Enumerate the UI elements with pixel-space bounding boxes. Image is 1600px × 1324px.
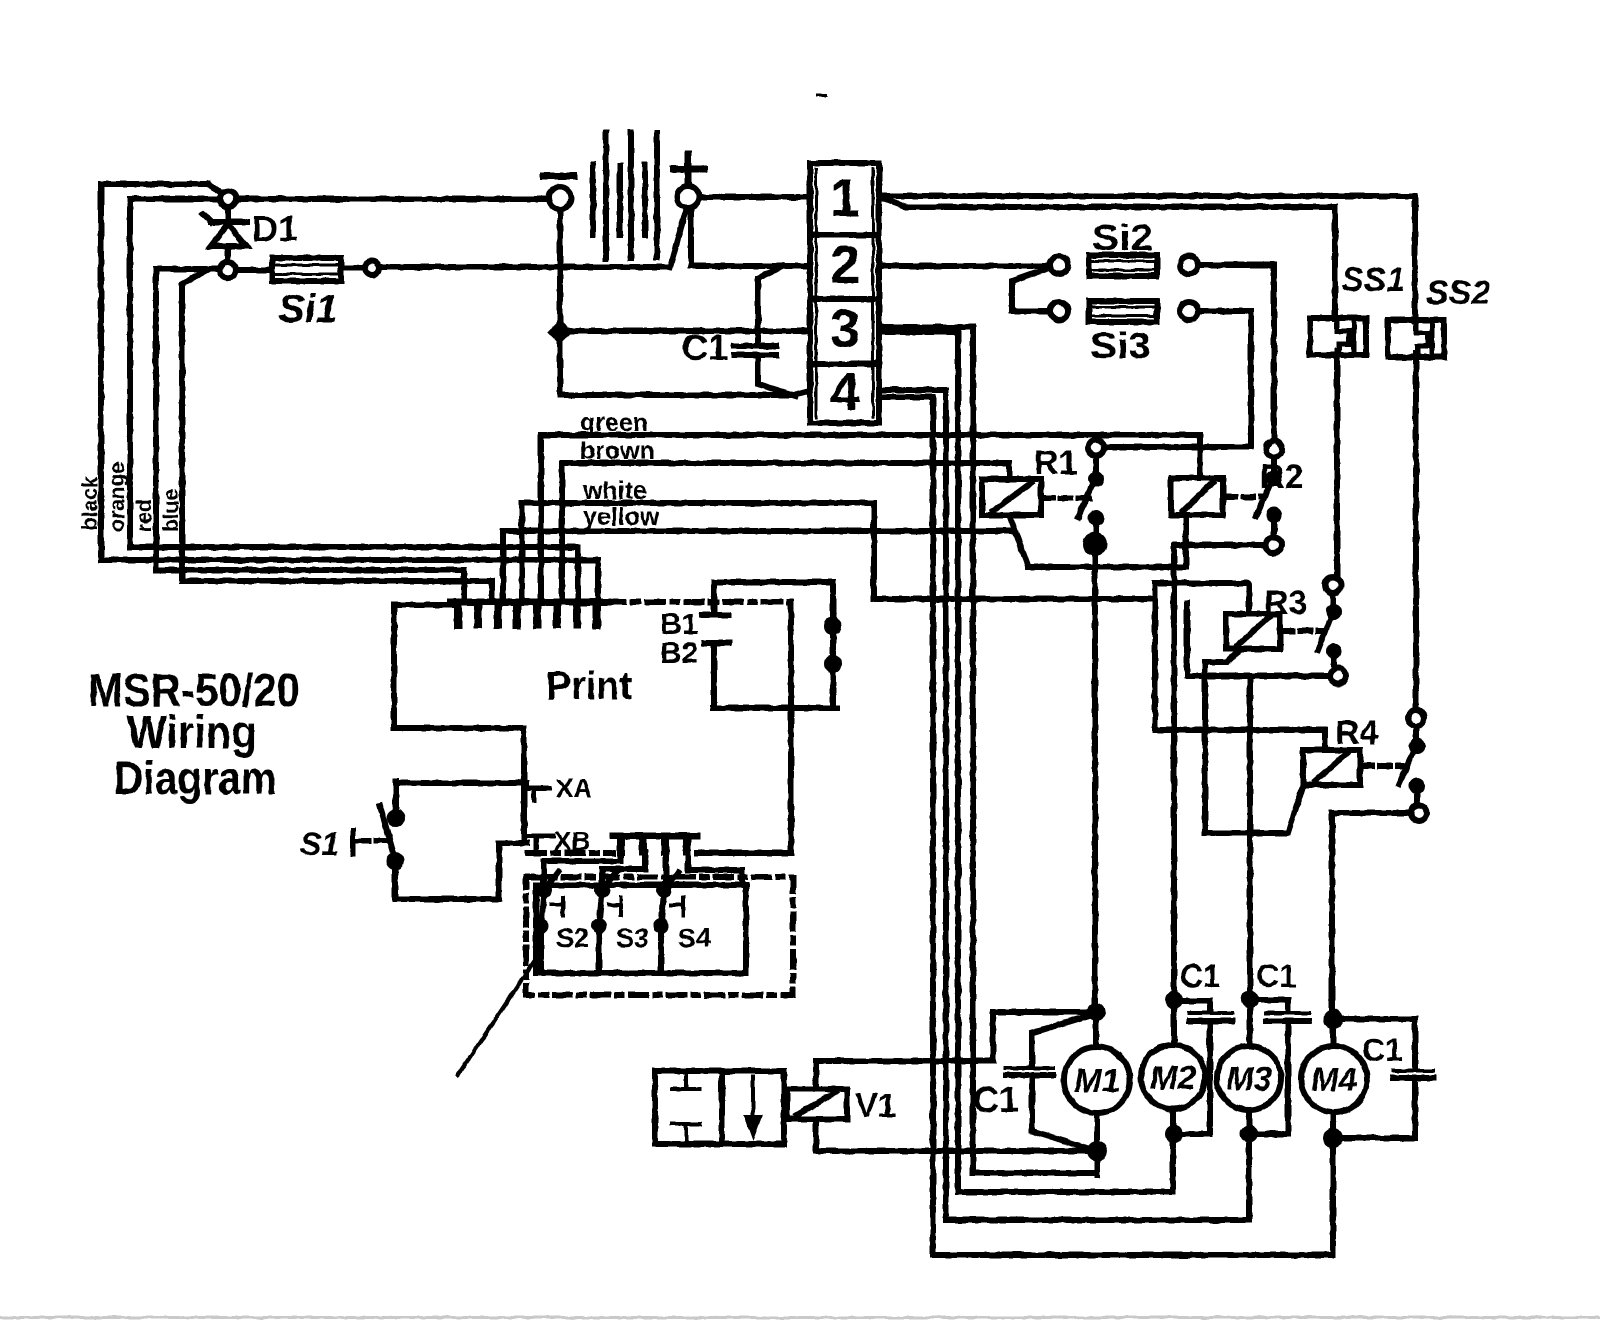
Print board outline (left) (394, 605, 524, 840)
scan artifact bottom line (0, 1316, 1600, 1319)
svg-text:C1: C1 (1180, 958, 1221, 994)
wire Si2 to R2 contact (1198, 265, 1274, 441)
wire Si2-Si3 link hook (1012, 269, 1050, 311)
junction dot M1 bottom (1094, 1113, 1100, 1175)
junction dot M3 bottom (1246, 1110, 1252, 1220)
battery minus sign (543, 173, 574, 180)
wire yellow (Print to coil return rail) (503, 531, 1012, 602)
svg-text:yellow: yellow (583, 503, 660, 531)
wire pin2 to Si2 (879, 263, 1050, 269)
valve V1 body (655, 1071, 784, 1144)
wire comb to box right (688, 852, 742, 885)
annotation leader line (458, 960, 535, 1075)
wire battery plus down to connector pin2 (691, 208, 810, 266)
terminal XA (396, 780, 526, 786)
wire R2 contact to M2 top (1174, 545, 1266, 996)
relay R2 contact (1266, 441, 1282, 457)
wire R2 coil bottom stub (1187, 603, 1330, 676)
wire R3 coil return hook (1205, 649, 1303, 833)
capacitor C1 (at connector) (758, 266, 783, 346)
fuse Si2 (1050, 256, 1068, 274)
wire SI1 to battery plus (379, 210, 686, 267)
S2-S4 outer box dash-dot (526, 877, 793, 995)
wire connector pin3 to M1 bottom (outer) (881, 327, 1092, 1173)
svg-text:Si1: Si1 (278, 287, 338, 331)
switch S3 (597, 885, 607, 895)
wire pin1 to SS2 (879, 196, 1415, 321)
wire SS2 to R4 contact (1413, 353, 1419, 710)
svg-text:R2: R2 (1260, 458, 1303, 496)
fuse Si3 (1050, 302, 1068, 320)
solenoid V1 (787, 1089, 847, 1119)
fuse SI1 (236, 267, 272, 273)
wire white rail to R3 coil top (1155, 583, 1249, 614)
motor M4 (1301, 1046, 1367, 1112)
junction dot M3 top (1244, 993, 1256, 1005)
battery B (cells) (590, 165, 596, 235)
connector cell separators (810, 235, 879, 364)
wire orange (left bundle) (130, 199, 578, 602)
svg-text:XB: XB (554, 826, 590, 856)
switch S1 (393, 781, 399, 814)
svg-text:C1: C1 (1362, 1032, 1403, 1068)
wire black (left bundle) (101, 184, 598, 602)
Print boundary right / wire to S2-S4 connector (697, 602, 791, 853)
wire V1 bottom rail to M1 bottom (816, 1119, 1092, 1151)
relay R3 contact (1325, 577, 1341, 593)
svg-text:M3: M3 (1226, 1060, 1272, 1097)
relay R3 coil (1226, 614, 1280, 649)
Print top connector comb (451, 599, 608, 606)
wire R1 coil return to rail (1010, 517, 1028, 566)
wire red (left bundle) (156, 269, 464, 602)
svg-text:XA: XA (556, 773, 592, 803)
wire V1 top rail to M1 top (816, 1012, 1096, 1089)
svg-text:R4: R4 (1335, 714, 1379, 752)
wire B1 loop (714, 582, 833, 708)
wire comb to S2 (544, 852, 621, 886)
svg-text:black: black (79, 476, 102, 530)
svg-text:B2: B2 (660, 637, 698, 670)
relay R1 coil (982, 479, 1041, 515)
wire battery minus down to junction (560, 209, 810, 395)
battery plus sign (673, 154, 704, 184)
capacitor C1 (M4) (1340, 1019, 1415, 1066)
switch SS2 (1388, 320, 1444, 357)
wire blue (left bundle) (182, 271, 492, 602)
wire R1 contact to M1 top (1092, 551, 1098, 1008)
wire white rail down to R4 coil top (1155, 583, 1325, 750)
junction dot M4 bottom (1330, 1112, 1336, 1255)
battery plus terminal (677, 186, 699, 208)
junction dot on minus wire (552, 324, 568, 340)
wire connector pin4 to M4 bottom (inner) (881, 397, 1329, 1255)
wire pin1 to SS1 (884, 199, 1335, 319)
node terminal circle at D1 anode (220, 262, 236, 278)
motor M1 (1064, 1047, 1130, 1113)
svg-text:M2: M2 (1150, 1059, 1196, 1096)
junction dots on B loop (827, 620, 839, 632)
terminal XB (499, 840, 527, 846)
capacitor C1 (M2) (1180, 1001, 1210, 1011)
terminal circle right of SI1 (365, 261, 379, 275)
svg-text:4: 4 (830, 362, 860, 422)
switch SS1 (1310, 318, 1366, 355)
svg-text:1: 1 (830, 168, 860, 228)
junction node below R1 contact (1086, 535, 1104, 553)
wire comb to S4 (663, 852, 669, 886)
diode D1 (225, 207, 231, 221)
svg-text:SS1: SS1 (1341, 261, 1405, 299)
svg-text:orange: orange (106, 462, 129, 532)
wire coil return rail (yellow) (1028, 515, 1186, 567)
junction dot M2 bottom (1170, 1109, 1176, 1192)
motor M3 (1217, 1046, 1281, 1110)
wire R3 contact to M3 top (1247, 676, 1253, 995)
node terminal circle top-left (220, 191, 236, 207)
svg-text:C1: C1 (973, 1079, 1019, 1120)
svg-text:Diagram: Diagram (114, 752, 277, 804)
capacitor C1 (M1) (1032, 1015, 1091, 1066)
wire Si3 to R1 contact rail (1104, 311, 1251, 447)
svg-text:Si3: Si3 (1090, 325, 1151, 366)
connector block 1-4 outer box (810, 163, 879, 423)
S2-S4 connector comb (613, 833, 697, 840)
wire comb to S3 (602, 852, 645, 886)
svg-text:M4: M4 (1311, 1061, 1357, 1098)
terminal B1 (711, 582, 717, 614)
switch S4 (659, 885, 669, 895)
capacitor C1 (M3) (1256, 1000, 1288, 1011)
svg-text:2: 2 (830, 235, 860, 295)
battery minus terminal (549, 187, 571, 209)
svg-text:SS2: SS2 (1426, 274, 1490, 312)
svg-text:M1: M1 (1074, 1062, 1120, 1099)
relay R4 contact (1408, 710, 1424, 726)
motor M2 (1141, 1045, 1205, 1109)
junction dot M4 top (1326, 1012, 1340, 1026)
relay R4 coil (1303, 750, 1360, 785)
svg-text:R1: R1 (1034, 444, 1077, 482)
svg-text:blue: blue (160, 489, 183, 532)
wire SS1 to R3 contact (1334, 351, 1340, 577)
svg-text:S2: S2 (556, 923, 589, 953)
wire B2 bottom rail (713, 705, 837, 711)
svg-text:S4: S4 (678, 923, 711, 953)
svg-text:S3: S3 (616, 923, 649, 953)
svg-text:C1: C1 (682, 327, 728, 368)
S2-S4 inner box (536, 885, 746, 973)
wire junction to connector pin3 (560, 328, 810, 334)
terminal B2 (704, 640, 729, 646)
svg-text:D1: D1 (252, 208, 298, 249)
junction dot M2 top (1168, 994, 1180, 1006)
svg-text:Wiring: Wiring (127, 706, 257, 758)
svg-text:3: 3 (830, 299, 860, 359)
wire connector pin3 to M2 bottom (inner) (881, 332, 1170, 1192)
stray mark top (818, 94, 826, 97)
svg-text:V1: V1 (855, 1087, 897, 1125)
svg-text:S1: S1 (300, 826, 339, 862)
svg-text:Print: Print (546, 664, 632, 708)
wire R4 contact to M4 top (1332, 813, 1411, 1015)
svg-text:red: red (133, 499, 156, 532)
wire connector pin4 to M3 bottom (outer) (881, 390, 1245, 1220)
relay R2 coil (1171, 478, 1223, 515)
wire brown (Print to R1 coil) (562, 463, 1009, 602)
Print boundary dash-dot top (608, 599, 791, 605)
switch S2 (539, 885, 549, 895)
svg-text:Si2: Si2 (1092, 217, 1153, 258)
svg-text:green: green (580, 409, 648, 437)
svg-text:brown: brown (580, 437, 655, 465)
junction dot M1 top (1090, 1006, 1102, 1018)
svg-text:white: white (582, 477, 647, 505)
relay R1 contact (1088, 440, 1104, 456)
wire battery plus to connector pin1 (699, 194, 810, 200)
svg-text:C1: C1 (1256, 958, 1297, 994)
wire green (Print to R2 coil) (541, 435, 1200, 602)
Print boundary dash-dot bottom (528, 850, 613, 856)
wire white (Print to R3/R4 coils) (522, 503, 1153, 602)
svg-text:R3: R3 (1264, 584, 1307, 622)
